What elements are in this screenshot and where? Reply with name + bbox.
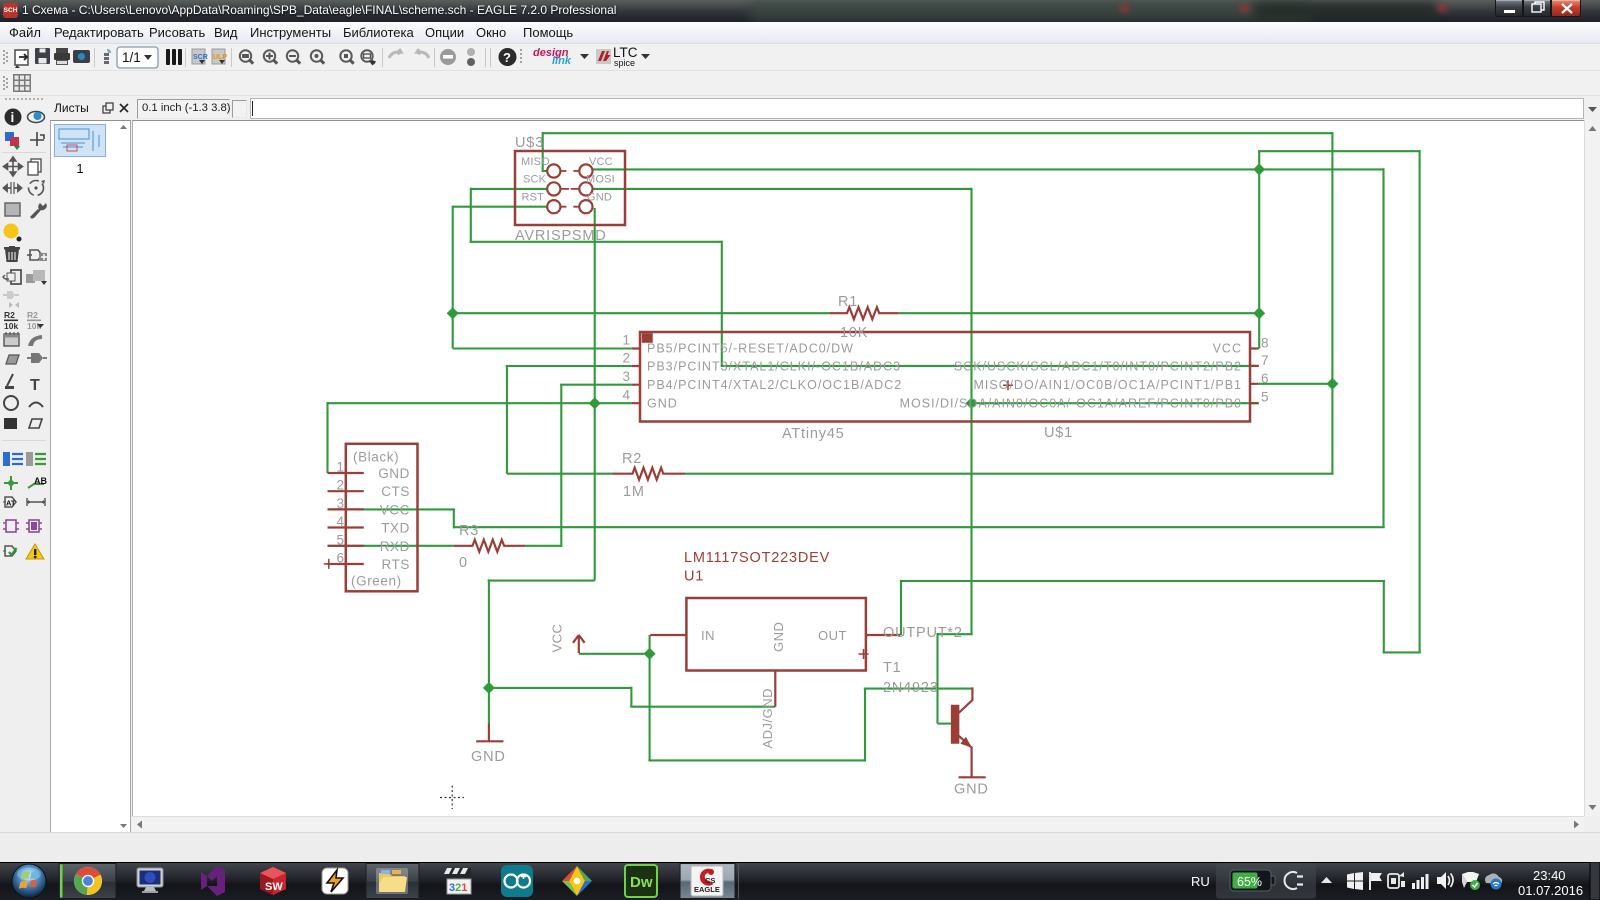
svg-text:MOSI/DI/SDA/AIN0/OC0A/-OC1A/AR: MOSI/DI/SDA/AIN0/OC0A/-OC1A/AREF/PCINT0/… (900, 397, 1242, 411)
wire net MISO top horizontal (543, 132, 1333, 134)
wire net VCC from U1 OUT horizontal (901, 580, 1385, 582)
menu bar (0, 22, 1600, 44)
svg-text:AT: AT (6, 499, 16, 508)
connector U$3 pad MOSI (579, 182, 592, 195)
tray up arrow (1321, 877, 1332, 883)
svg-text:SCK: SCK (523, 174, 547, 186)
wire net RXD vertical up (560, 385, 562, 547)
svg-text:ADJ/GND: ADJ/GND (760, 688, 775, 749)
svg-text:GND: GND (471, 749, 506, 765)
svg-text:VCC: VCC (550, 624, 565, 653)
wire net VCCINT U1 IN vertical (649, 635, 651, 760)
IC U$1 left pin stubs 1-4 (632, 349, 641, 404)
svg-text:5: 5 (1261, 390, 1269, 405)
resistor R3 (454, 540, 525, 552)
wire net MOSI bottom horizontal (938, 633, 973, 635)
regulator U1 ADJ/GND pin stub (774, 671, 776, 707)
connector U$3 pad SCK (547, 182, 560, 195)
wire net MISO right vertical (1331, 132, 1333, 474)
svg-text:T: T (30, 377, 40, 394)
wire net PB3 R2 left horizontal (507, 473, 613, 475)
wire net MOSI vertical to base (936, 633, 938, 724)
svg-text:i: i (11, 110, 15, 125)
network cloud icon (1485, 873, 1502, 889)
explorer button (366, 864, 419, 899)
wire net VCC vertical to U$1 pin8 (1258, 151, 1260, 348)
wire net RXD to U$1 pin3 (560, 384, 632, 386)
svg-text:1: 1 (622, 333, 630, 348)
junction VCC arrow/IN node (644, 648, 656, 660)
wire net VCCINT from VCC arrow to junction (579, 653, 650, 655)
wire net RST to R1 left (453, 312, 830, 314)
svg-text:PB4/PCINT4/XTAL2/CLKO/OC1B/ADC: PB4/PCINT4/XTAL2/CLKO/OC1B/ADC2 (647, 378, 902, 392)
action flag icon (1370, 872, 1382, 890)
wire net VCCINT to T1 collector (864, 688, 973, 690)
wire net VCC jog vertical (1383, 581, 1385, 652)
svg-text:GND: GND (647, 397, 678, 411)
wire net PB3 to U$1 pin2 (506, 365, 632, 367)
svg-text:MOSI: MOSI (586, 174, 615, 186)
svg-text:IN: IN (701, 628, 715, 643)
wire net MOSI long vertical (970, 188, 972, 635)
svg-text:CTS: CTS (381, 484, 410, 499)
svg-text:10K: 10K (840, 325, 868, 341)
svg-text:SCR: SCR (193, 54, 208, 61)
svg-text:1: 1 (336, 460, 344, 475)
wire net VCC over FTDI connector (328, 508, 456, 510)
visual studio icon (201, 866, 225, 896)
sheets panel (50, 96, 131, 120)
svg-text:SCK/USCK/SCL/ADC1/T0/INT0/PCIN: SCK/USCK/SCL/ADC1/T0/INT0/PCINT2/PB2 (954, 360, 1242, 374)
svg-text:TXD: TXD (381, 521, 410, 536)
wire net PB3 vertical (506, 366, 508, 474)
junction MOSI/pin5 node (966, 397, 978, 409)
wire net VCC long horizontal to FTDI VCC (454, 526, 1385, 528)
start orb (12, 864, 46, 898)
regulator U1 IN pin stub (650, 634, 686, 636)
svg-text:ULP: ULP (213, 54, 227, 61)
connector U$3 pad RST (547, 200, 560, 213)
svg-text:ATtiny45: ATtiny45 (782, 426, 845, 442)
svg-text:10k: 10k (4, 321, 18, 331)
connector U$3 inner pin stubs (560, 171, 579, 207)
wire net RST from U$3 RST pad (453, 206, 548, 208)
wire net VCC upper horizontal (1258, 150, 1420, 152)
svg-text:OUTPUT*2: OUTPUT*2 (883, 625, 963, 641)
wire net RST to U$1 pin1 (453, 347, 632, 349)
connector JP1 pin stubs 1-6 (328, 473, 364, 564)
svg-text:AVRISPSMD: AVRISPSMD (515, 228, 607, 244)
connector U$3 pad GND (579, 200, 592, 213)
svg-text:2: 2 (622, 351, 630, 366)
IC U$1 ATtiny45 box (640, 332, 1250, 422)
battery 65% (1230, 870, 1275, 891)
command row (0, 96, 1600, 120)
svg-text:MISO/DO/AIN1/OC0B/OC1A/PCINT1/: MISO/DO/AIN1/OC0B/OC1A/PCINT1/PB1 (974, 378, 1242, 392)
regulator U1 LM1117 box (686, 598, 866, 671)
resistor R1 (829, 307, 898, 319)
wire net VCC bottom jog horizontal (1383, 651, 1421, 653)
svg-text:VCC: VCC (589, 156, 613, 168)
wire net RXD from FTDI RXD pin to R3 (328, 545, 454, 547)
wire net RXD R3 right horizontal (525, 545, 561, 547)
svg-text:7: 7 (1261, 353, 1269, 368)
eagle button (active) (680, 864, 735, 899)
svg-text:01.07.2016: 01.07.2016 (1518, 883, 1583, 898)
toolbar row 2 (grid icon) (0, 71, 1600, 96)
regulator U1 OUT pin stub (866, 634, 900, 636)
connector U$3 AVRISPSMD box (515, 151, 625, 225)
connector U$3 pad VCC (579, 164, 592, 177)
arduino icon (501, 865, 533, 897)
junction VCC upper node (1253, 163, 1265, 175)
svg-text:6: 6 (1261, 371, 1269, 386)
svg-text:321: 321 (449, 882, 467, 894)
svg-text:U$3: U$3 (515, 135, 544, 151)
wire net MOSI junction to U$1 pin5 (972, 402, 1259, 404)
svg-text:RST: RST (522, 192, 545, 204)
svg-text:SW: SW (265, 881, 283, 893)
status bar (0, 832, 1600, 862)
svg-text:8: 8 (1261, 336, 1269, 351)
svg-text:spice: spice (614, 58, 635, 68)
svg-text:GND: GND (378, 466, 410, 481)
svg-text:T1: T1 (883, 660, 902, 676)
wire net VCCINT riser vertical (864, 689, 866, 762)
wire net VCC from U1 OUT vertical (900, 580, 902, 635)
junction GND 4-way node (589, 397, 601, 409)
connector U$3 pad MISO (547, 164, 560, 177)
winamp icon (322, 868, 348, 894)
wire net VCC R1 right to junction (899, 312, 1259, 314)
junction RST/R1 node (447, 307, 459, 319)
svg-text:2: 2 (336, 478, 344, 493)
svg-text:GND: GND (587, 192, 612, 204)
svg-text:U1: U1 (684, 569, 704, 585)
svg-text:RTS: RTS (381, 557, 410, 572)
wire net VCCINT bottom rail (648, 759, 865, 761)
IC U$1 pin1 marker square (643, 334, 653, 342)
solidworks icon (260, 867, 286, 895)
svg-text:LM1117SOT223DEV: LM1117SOT223DEV (684, 550, 830, 566)
svg-text:RXD: RXD (380, 539, 410, 554)
svg-text:65%: 65% (1237, 875, 1262, 889)
supply symbol VCC arrow (573, 635, 585, 653)
svg-text:PB3/PCINT3/XTAL1/CLKI/-OC1B/AD: PB3/PCINT3/XTAL1/CLKI/-OC1B/ADC3 (647, 360, 901, 374)
wire net SCK across U$1 to pin7 (721, 365, 1259, 367)
signal bars (1412, 874, 1429, 889)
dreamweaver icon (625, 865, 657, 897)
wire net RST vertical (452, 206, 454, 349)
wire net SCK vertical to pin7 row (721, 241, 723, 366)
wire net GND vertical to ground symbol (488, 579, 490, 723)
wire net VCC from U$3 VCC pad long horizontal (593, 168, 1384, 170)
svg-text:6: 6 (336, 551, 344, 566)
svg-text:?: ? (503, 50, 511, 65)
plug icon (1285, 872, 1304, 889)
svg-text:4: 4 (622, 388, 630, 403)
junction VCC/R1 node (1253, 307, 1265, 319)
wire net VCC far right vertical (1419, 150, 1421, 652)
svg-text:5: 5 (336, 532, 344, 547)
connector JP1 FTDI box (346, 444, 418, 592)
wire net VCC mid-right vertical (1382, 168, 1384, 527)
svg-text:MISO: MISO (521, 156, 550, 168)
mpc 321 icon (444, 868, 471, 894)
chrome button (59, 864, 116, 899)
resistor R2 (613, 468, 686, 480)
wire net MISO drop to U$3 MISO pad (543, 132, 548, 171)
svg-text:R2: R2 (4, 310, 15, 320)
svg-text:3: 3 (622, 369, 630, 384)
svg-text:VCC: VCC (380, 502, 410, 517)
wire net MOSI from U$3 MOSI pad (593, 188, 972, 190)
left tool palette (0, 96, 50, 576)
toolbar row 1 (0, 44, 1600, 71)
junction MISO/pin6 node (1326, 378, 1338, 390)
taskbar (0, 862, 1600, 900)
ground symbol GND left (476, 724, 503, 742)
wire net SCK vertical left (470, 188, 472, 242)
wire net GND from U$3 GND pad vertical (594, 208, 596, 581)
svg-text:VCC: VCC (1213, 342, 1242, 356)
svg-text:OUT: OUT (818, 628, 847, 643)
speaker icon (1437, 872, 1453, 889)
svg-text:R1: R1 (838, 294, 858, 310)
svg-text:3: 3 (336, 496, 344, 511)
connector JP1 origin cross (324, 559, 334, 569)
wire net GND lower horizontal (488, 580, 595, 582)
svg-text:(Black): (Black) (353, 450, 399, 465)
ground symbol GND right (959, 776, 986, 778)
svg-text:0: 0 (459, 555, 468, 571)
wire net SCK from U$3 SCK pad (471, 188, 548, 190)
wire net GND to U$1 pin4 (328, 402, 632, 404)
monitor icon (137, 868, 163, 893)
color diamond icon (562, 866, 592, 896)
wire net MOSI to T1 base (938, 723, 952, 725)
wire net SCK horizontal middle (470, 241, 722, 243)
svg-text:CS: CS (705, 876, 715, 885)
junction GND/ADJ node (483, 682, 495, 694)
svg-text:R3: R3 (459, 523, 479, 539)
wire net GND branch to ADJ horizontal (489, 687, 632, 689)
dropbox icon (1462, 872, 1480, 890)
transistor T1 2N4923 (952, 687, 973, 776)
wire net MISO U$1 pin6 stub to vertical (1259, 383, 1333, 385)
svg-text:R2: R2 (27, 310, 38, 320)
wire net VCC FTDI jog vertical (453, 509, 455, 528)
mouse crosshair cursor (440, 786, 464, 810)
svg-text:RU: RU (1191, 874, 1210, 889)
svg-text:(Green): (Green) (351, 574, 402, 589)
wire net MISO from R2 right to vertical (685, 473, 1334, 475)
svg-text:1/1: 1/1 (122, 50, 141, 65)
svg-text:GND: GND (954, 782, 989, 798)
svg-text:PB5/PCINT5/-RESET/ADC0/DW: PB5/PCINT5/-RESET/ADC0/DW (647, 342, 854, 356)
svg-text:EAGLE: EAGLE (694, 885, 720, 894)
svg-text:link: link (552, 55, 572, 67)
svg-text:2N4923: 2N4923 (883, 680, 939, 696)
regulator U1 origin cross (859, 649, 869, 659)
svg-text:R2: R2 (622, 451, 642, 467)
svg-text:Dw: Dw (630, 874, 653, 891)
wire net GND FTDI vertical (326, 402, 328, 473)
svg-text:U$1: U$1 (1044, 425, 1073, 441)
svg-text:GND: GND (771, 622, 786, 652)
win flag icon (1347, 872, 1363, 890)
svg-text:4: 4 (336, 514, 344, 529)
IC U$1 right pin stubs 8-5 (1250, 349, 1259, 404)
wire net GND to U1 ADJ/GND pin (630, 706, 775, 708)
wire net GND branch jog vertical (630, 687, 632, 707)
canvas + scrollbars (132, 120, 1584, 816)
svg-text:1M: 1M (623, 484, 645, 500)
device eject icon (1388, 872, 1405, 888)
svg-text:AB: AB (34, 476, 47, 486)
title bar (0, 0, 1600, 22)
IC U$1 origin cross (1003, 380, 1013, 390)
svg-text:23:40: 23:40 (1533, 868, 1566, 883)
